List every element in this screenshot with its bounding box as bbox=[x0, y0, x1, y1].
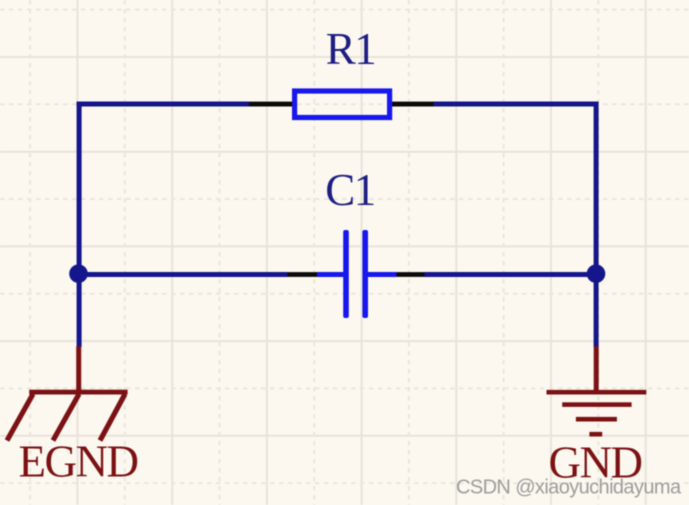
capacitor C1 left plate bbox=[343, 230, 349, 318]
power port EGND bar bbox=[29, 390, 127, 395]
power port EGND hatch 1 bbox=[7, 394, 33, 441]
power port GND bar 1 bbox=[547, 390, 647, 395]
resistor R1 pin 1 (black lead) bbox=[249, 102, 293, 107]
power port GND bar 2 bbox=[562, 402, 631, 407]
power port EGND stem bbox=[76, 346, 81, 392]
capacitor C1 pin 2 (black lead) bbox=[396, 272, 425, 277]
power port GND stem bbox=[594, 346, 599, 392]
capacitor C1 left lead stub bbox=[317, 272, 344, 277]
power port EGND hatch 2 bbox=[53, 394, 79, 441]
svg-text:EGND: EGND bbox=[19, 437, 138, 487]
power port EGND hatch 3 bbox=[100, 394, 125, 441]
wire top-left horizontal segment (node to R1 pin) bbox=[77, 102, 249, 107]
capacitor C1 right plate bbox=[362, 230, 368, 318]
power port GND bar 4 bbox=[589, 432, 602, 437]
resistor R1 body bbox=[295, 91, 390, 118]
junction dot right bbox=[587, 264, 606, 283]
wire middle-left horizontal segment (junction to C1 pin) bbox=[77, 272, 288, 277]
svg-text:C1: C1 bbox=[325, 165, 375, 215]
wire right vertical segment bbox=[594, 102, 599, 348]
wire middle-right horizontal segment (C1 pin to junction) bbox=[425, 272, 599, 277]
resistor R1 pin 2 (black lead) bbox=[392, 102, 434, 107]
wire left vertical segment bbox=[77, 102, 82, 348]
junction dot left bbox=[69, 264, 88, 283]
wire top-right horizontal segment (R1 pin to node) bbox=[433, 102, 599, 107]
power port GND bar 3 bbox=[576, 417, 617, 422]
svg-text:CSDN @xiaoyuchidayuma: CSDN @xiaoyuchidayuma bbox=[456, 477, 682, 499]
svg-text:R1: R1 bbox=[326, 24, 376, 74]
capacitor C1 pin 1 (black lead) bbox=[287, 272, 318, 277]
capacitor C1 right lead stub bbox=[368, 272, 397, 277]
